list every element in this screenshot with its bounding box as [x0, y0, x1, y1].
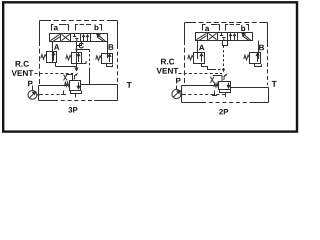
relief tank mark (2P)	[212, 91, 217, 96]
centre position blocked ports (2P)	[220, 33, 226, 41]
junction dot (2P)	[222, 68, 225, 71]
label R.C (3P)	[16, 61, 29, 67]
spring of valve B (2P)	[244, 55, 250, 60]
wire valve to B (2P)	[258, 41, 260, 60]
pilot bracket b (3P)	[76, 25, 102, 31]
spring of valve B (3P)	[96, 56, 102, 61]
wire pilot box to C (3P)	[76, 46, 78, 64]
P supply line (2P)	[182, 85, 219, 87]
relief drain cup (3P)	[71, 91, 82, 94]
reducing valve B box (3P)	[102, 54, 113, 64]
enclosure right edge 2P	[267, 23, 269, 44]
label b (3P)	[95, 25, 99, 31]
pilot bracket a (2P)	[203, 25, 220, 31]
label B (3P)	[109, 44, 114, 50]
VENT pilot line dashed (2P)	[179, 73, 223, 75]
directional valve DV1 body (3P)	[50, 34, 108, 42]
label R.C (2P)	[161, 59, 174, 65]
vent riser dashed (3P)	[89, 50, 91, 69]
drain of valve C (3P)	[76, 64, 78, 71]
solenoid a (2P)	[196, 33, 206, 40]
pilot squiggle of relief valve (3P)	[74, 74, 77, 79]
directional valve DV2 body (2P)	[196, 33, 253, 41]
pressure gauge G2 (2P)	[172, 89, 181, 98]
wire valve to A (2P)	[197, 41, 199, 60]
pilot squiggle of relief valve (2P)	[223, 75, 226, 80]
label B (2P)	[259, 45, 264, 51]
T line from relief (3P)	[81, 84, 118, 86]
gauge stem (2P)	[176, 86, 178, 90]
P riser to bottom (3P)	[38, 86, 40, 101]
drain of valve A (2P)	[202, 64, 214, 70]
position 3 parallel arrows (2P)	[231, 34, 235, 40]
main spring of relief valve (2P)	[214, 83, 219, 87]
drain cup of valve B (3P)	[107, 64, 113, 67]
solenoid b (2P)	[242, 33, 251, 40]
label A (3P)	[54, 44, 59, 50]
solenoid a (3P)	[50, 34, 60, 41]
gauge dashed line (2P)	[183, 94, 225, 96]
T down leg (2P)	[268, 88, 270, 103]
pilot line to vent riser (3P)	[77, 49, 90, 51]
spring of valve A (3P)	[41, 55, 47, 60]
enclosure left edge 2P	[184, 40, 186, 86]
spring of valve A (2P)	[188, 55, 194, 60]
gauge stem (3P)	[32, 86, 34, 91]
label a (2P)	[205, 27, 209, 31]
pilot bracket a (3P)	[52, 25, 69, 31]
junction dot at gauge (2P)	[180, 93, 182, 95]
label P (3P)	[28, 81, 33, 87]
bottom return line (3P)	[39, 100, 55, 102]
reducing valve C box (3P)	[72, 53, 82, 64]
relief valve RV1 box (3P)	[70, 81, 81, 91]
pilot under-box (3P)	[77, 42, 82, 46]
junction dot pilot (3P)	[75, 48, 77, 50]
T line from relief (2P)	[231, 87, 269, 89]
P riser to bottom (2P)	[181, 86, 183, 103]
wire valve to B (3P)	[107, 42, 109, 59]
T down leg (3P)	[117, 85, 119, 101]
enclosure top edge 3P	[46, 20, 111, 22]
enclosure left edge 3P	[39, 41, 41, 84]
enclosure right edge 3P	[117, 21, 119, 46]
label A (2P)	[199, 45, 204, 51]
position 1 crossed arrows (3P)	[62, 34, 70, 40]
pilot drain dashed riser (2P)	[223, 46, 225, 70]
pressure gauge G1 (3P)	[28, 91, 37, 100]
reducing valve A box (3P)	[47, 52, 57, 63]
label 3P	[68, 107, 77, 113]
junction dot (3P)	[37, 94, 39, 96]
centre position blocked ports (3P)	[73, 34, 79, 42]
bottom return line (2P)	[182, 102, 203, 104]
label T (3P)	[127, 82, 132, 88]
drain collector line (3P)	[56, 66, 77, 68]
label T (2P)	[272, 81, 277, 87]
reducing valve A box (2P)	[194, 53, 205, 64]
pilot bracket b (2P)	[226, 25, 249, 31]
wire valve to A (3P)	[52, 42, 54, 63]
position 1 crossed arrows (2P)	[209, 33, 217, 39]
drain hook of valve C (3P)	[82, 61, 87, 64]
pilot spring of relief valve (2P)	[210, 77, 214, 83]
spring of valve C (3P)	[66, 55, 72, 60]
drain of valve A (3P)	[55, 63, 57, 67]
pilot spring of relief valve (3P)	[64, 75, 67, 81]
relief tank mark (3P)	[61, 91, 66, 95]
solenoid b (3P)	[97, 34, 105, 41]
label P (2P)	[176, 78, 181, 84]
drain cup of valve B (2P)	[255, 64, 262, 67]
P supply line (3P)	[39, 85, 70, 87]
label 2P	[219, 109, 228, 114]
VENT pilot line dashed (3P)	[35, 73, 74, 75]
pilot under-box (2P)	[223, 41, 228, 46]
label VENT (3P)	[12, 70, 34, 76]
position 3 parallel arrows (3P)	[84, 35, 88, 41]
enclosure top edge 2P	[191, 22, 261, 24]
main spring of relief valve (3P)	[64, 82, 69, 86]
label C (3P)	[79, 43, 84, 49]
label a (3P)	[54, 26, 58, 30]
label VENT (2P)	[157, 68, 179, 74]
gauge dashed line (3P)	[40, 94, 61, 96]
reducing valve B box (2P)	[250, 53, 261, 64]
relief valve RV2 box (2P)	[219, 82, 231, 90]
label b (2P)	[241, 25, 245, 31]
border frame	[3, 2, 297, 131]
relief drain cup (2P)	[220, 90, 231, 93]
